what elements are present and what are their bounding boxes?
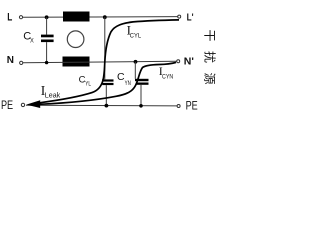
label CYN (117, 71, 131, 87)
choke L1 core (67, 31, 84, 48)
terminal L (19, 16, 22, 19)
label I_Leak (41, 83, 61, 100)
svg-text:L: L (7, 11, 12, 23)
terminal N (20, 61, 23, 64)
capacitor CYN lead top (134, 62, 136, 79)
node PE-CYN (139, 104, 143, 108)
svg-text:YL: YL (85, 80, 91, 87)
svg-text:Leak: Leak (45, 93, 61, 100)
capacitor CYL lead bottom (105, 85, 107, 106)
wire PE (26, 104, 177, 107)
wire N to N' (23, 61, 177, 63)
capacitor CYL lead top (104, 17, 106, 79)
wire L to L' (23, 16, 178, 19)
capacitor CX (41, 35, 54, 43)
svg-text:L': L' (187, 10, 194, 22)
svg-text:CYN: CYN (162, 74, 173, 81)
current path I_CYL (40, 20, 180, 103)
svg-text:PE: PE (186, 99, 198, 113)
terminal L' (178, 15, 181, 18)
capacitor CYL (102, 79, 114, 85)
svg-text:干扰源: 干扰源 (203, 30, 217, 95)
svg-text:YN: YN (125, 80, 132, 87)
current path I_CYN (40, 62, 177, 104)
terminal N' (177, 60, 180, 63)
node N-CYN (134, 60, 138, 64)
capacitor CX lead top (46, 17, 48, 34)
choke L1 winding b (63, 57, 90, 67)
label I_CYL (127, 22, 142, 39)
node L-CYL (103, 15, 107, 19)
arrow I_leak (26, 100, 40, 108)
terminal PE left (21, 103, 24, 106)
node PE-CYL (105, 104, 109, 108)
capacitor CX lead bottom (46, 42, 48, 63)
choke L1 winding a (63, 12, 90, 22)
label I_CYN (159, 64, 174, 81)
label CYL (79, 74, 92, 87)
svg-text:CYL: CYL (130, 33, 142, 40)
capacitor CYN (135, 79, 149, 85)
node L-CX (45, 15, 49, 19)
capacitor CYN lead bottom (140, 85, 142, 106)
label CX (23, 31, 34, 45)
svg-text:X: X (30, 37, 34, 44)
svg-text:PE: PE (1, 99, 13, 113)
svg-text:N: N (7, 55, 14, 66)
svg-text:N': N' (184, 56, 194, 68)
terminal PE right (177, 105, 180, 108)
node N-CX (45, 61, 48, 64)
